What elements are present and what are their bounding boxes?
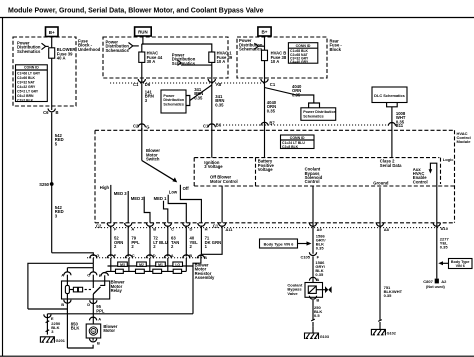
body type vin6 box right [449,259,473,269]
svg-text:C2=66 BLK: C2=66 BLK [17,76,36,80]
svg-text:G: G [146,124,149,129]
svg-text:M: M [92,329,94,333]
valve bowtie [316,289,325,291]
fuse HVAC1 39 [209,52,215,62]
ground G102 [371,329,385,335]
svg-text:A: A [131,227,134,232]
wire fuse38 down [264,61,266,158]
wire switch pin to resistor row x=186.3 [185,226,187,257]
pin H bottom row [198,223,205,226]
connector A8 top [208,79,215,82]
power distribution schematics solid box [161,90,186,113]
coolant bypass valve box [305,283,323,298]
pin B2 [197,255,204,258]
svg-text:C: C [132,253,135,258]
bracket into pds box [309,103,320,108]
svg-text:Distribution: Distribution [163,98,184,102]
svg-text:A: A [61,273,64,278]
module left edge [94,130,96,223]
svg-text:C2=8 BLK: C2=8 BLK [282,145,299,149]
svg-text:C3=32 NAT: C3=32 NAT [17,80,36,84]
wire coolant bypass control [312,186,314,253]
svg-text:C1: C1 [203,124,209,129]
wire fuse44 down [141,62,143,130]
svg-text:C: C [171,227,174,232]
resistor pin C [125,255,132,258]
svg-text:B: B [189,253,192,258]
svg-text:M1: M1 [158,263,163,267]
wire switch pin to resistor row x=128.2 [127,226,129,257]
bracket under dlc [387,103,398,107]
svg-text:0.35: 0.35 [384,293,393,298]
connector B7 [261,122,268,125]
RUN terminal [135,27,152,36]
dotted row resistor assembly [87,257,204,259]
svg-text:Schematics: Schematics [303,114,324,118]
resistor M3 label box [118,262,128,266]
svg-text:B: B [316,298,319,303]
svg-text:Relay: Relay [111,288,123,293]
wire run split [142,36,143,44]
svg-text:30 A: 30 A [147,59,156,64]
relay pin A [64,272,71,275]
wire resistor tap x=110.8 [110,258,112,272]
G pin wire [92,258,94,263]
wire 1008 WHT [391,107,393,158]
svg-text:0.35: 0.35 [215,102,224,107]
relay pin D [90,300,97,303]
DLC schematics box [372,87,407,103]
branch 4040 to power distribution [265,88,314,104]
relay feed A C link [92,263,94,267]
logic notch edge [440,158,442,184]
rail junction horizontal [28,308,68,310]
svg-text:Motor: Motor [103,328,115,333]
svg-text:C2: C2 [133,124,139,129]
module internal edge lower [194,185,454,187]
connector C807 A2 end [435,279,439,284]
svg-text:A10: A10 [441,226,449,231]
svg-text:DLC Schematics: DLC Schematics [374,93,405,98]
relay B wire down [66,299,68,348]
pin A10 [433,223,440,226]
relay suppressor [69,289,73,291]
svg-text:B+: B+ [49,30,55,35]
svg-text:Block: Block [330,47,342,52]
svg-text:D6: D6 [145,82,151,87]
arrow to wire left [442,262,449,264]
svg-text:C105: C105 [300,254,310,259]
resistor element M1 [153,269,162,273]
svg-text:Module Power, Ground, Serial D: Module Power, Ground, Serial Data, Blowe… [8,8,264,15]
wire aux hvac enable [436,186,438,279]
wire switch pin to resistor row x=110.8 [110,226,112,257]
dotted harness line below module [95,227,445,229]
wire B+ to fuse [51,37,53,48]
motor return [67,345,93,348]
E feed diagonal [105,271,107,273]
svg-text:0.35: 0.35 [316,246,325,251]
svg-text:MED 2: MED 2 [131,196,144,201]
svg-text:G102: G102 [387,332,396,336]
pin F bottom row [107,223,114,226]
pin A bottom row [125,223,132,226]
svg-text:A8: A8 [216,82,222,87]
splice S250 [50,182,54,186]
fuse BLOWER 39 [49,48,55,58]
run fuse dashed box [103,37,228,78]
wire fuse39 down [211,62,213,157]
motor pin B [90,339,97,342]
resistor LO label box [173,262,183,266]
svg-text:D: D [87,302,90,307]
arrow to wire [298,243,308,245]
resistor M1 label box [156,262,166,266]
svg-text:Body Type VIN 6: Body Type VIN 6 [264,242,294,246]
ground G103 [305,333,319,339]
svg-text:C1: C1 [133,82,139,87]
svg-text:BLK: BLK [71,326,80,331]
svg-text:A11: A11 [225,227,233,232]
connector C105 F [309,252,316,255]
wire break [312,322,314,326]
svg-text:Ground: Ground [373,181,389,186]
relay switch [92,281,94,288]
svg-text:Switch: Switch [146,157,160,162]
svg-text:10 A: 10 A [271,59,280,64]
connector B11 [388,123,395,126]
svg-text:B11: B11 [396,123,404,128]
relay pin B [64,300,71,303]
low speed rail horizontal [47,313,193,315]
svg-text:D: D [190,227,193,232]
resistor pin A [164,255,171,258]
wire 542 RED upper [51,113,53,253]
svg-text:C5=2 LT GRY: C5=2 LT GRY [17,89,39,93]
bracket to wire [42,43,46,49]
svg-text:LO: LO [175,263,180,267]
wire resistor tap x=149.8 [149,258,151,272]
svg-text:H: H [205,227,208,232]
module right edge [454,130,456,223]
fuse HVAC B 38 [262,50,268,60]
svg-text:A: A [98,316,101,321]
svg-text:A2: A2 [441,279,447,284]
svg-text:C6=2 BRN: C6=2 BRN [17,94,34,98]
frame bottom border [0,355,474,357]
svg-text:B: B [56,110,59,115]
svg-text:D: D [153,253,156,258]
wire switch pin to resistor row x=167.8 [167,226,169,257]
svg-text:0.35: 0.35 [440,244,449,249]
svg-text:B: B [61,302,64,307]
svg-text:Off: Off [183,186,190,191]
svg-text:C7=2 BLK: C7=2 BLK [17,98,34,102]
power distribution schematics solid box right [301,108,336,121]
svg-text:Voltage: Voltage [258,167,273,172]
wire fuse to C6 [51,58,53,110]
wire resistor tap x=167.8 [167,258,169,272]
resistor element LO [173,269,181,273]
CONN ID table 3 [281,135,315,149]
blower motor box [86,324,101,338]
svg-text:Serial Data: Serial Data [380,163,402,168]
wire 250 BLK [312,300,314,320]
svg-text:B: B [97,341,100,346]
svg-text:Power: Power [163,94,175,98]
svg-text:Power Distribution: Power Distribution [303,110,337,114]
svg-text:C2: C2 [96,223,102,228]
connector C6 pin B [48,109,55,112]
svg-text:Module: Module [457,139,472,144]
svg-text:B: B [153,227,156,232]
svg-text:B+: B+ [261,30,267,35]
CONN ID table 2 [288,43,317,64]
rear fuse dashed box [237,37,327,78]
svg-text:G201: G201 [56,339,65,343]
svg-text:CONN ID: CONN ID [290,136,305,140]
ground G201 [40,337,54,343]
pin B bottom row [146,223,153,226]
svg-text:Control: Control [413,179,428,184]
svg-text:Schematics: Schematics [239,47,263,52]
wire 71 dk grn down [200,226,202,255]
pin A8 [376,223,383,226]
relay D to motor [92,299,94,324]
svg-text:C4=32 GRY: C4=32 GRY [17,85,36,89]
resistor box top [108,265,194,267]
break hooks 2250 wire [46,321,50,323]
connector E ground [44,314,51,317]
B+ terminal left [46,27,59,37]
module bottom edge [95,222,455,224]
svg-text:MED 1: MED 1 [154,196,167,201]
pin A9 [309,223,316,226]
svg-text:Valve: Valve [287,291,298,296]
svg-text:M2: M2 [139,263,144,267]
frame left border [2,18,4,357]
svg-text:E: E [99,273,102,278]
connector C1 D6 [138,79,145,82]
svg-text:A8: A8 [384,227,390,232]
svg-text:Motor Control: Motor Control [210,179,238,184]
motor pin A [90,317,97,320]
svg-text:Low: Low [169,190,178,195]
wire to valve [312,256,314,282]
valve pin A [309,277,316,280]
svg-text:0.35: 0.35 [292,92,301,97]
module internal edge upper [194,157,439,159]
svg-text:A9: A9 [317,227,323,232]
svg-text:C: C [87,273,90,278]
wire 71 into resistor rail [200,254,202,261]
wire A11 inside module [221,186,223,223]
connector C1 rear [261,79,268,82]
relay pin E [101,273,108,276]
svg-text:C807: C807 [423,279,433,284]
wire break g102 [379,322,381,327]
svg-text:C1: C1 [213,223,219,228]
svg-text:DK GRN: DK GRN [205,240,222,245]
switch common wire [141,128,143,161]
resistor element M3 [116,269,124,273]
relay coil [66,281,68,285]
svg-text:Logic: Logic [443,157,454,162]
body type vin6 box left [260,239,298,248]
fuse HVAC 44 [139,52,145,62]
svg-text:0.35: 0.35 [267,108,276,113]
wire A11 u-turn [201,226,222,255]
module top edge [95,129,455,131]
svg-text:0.5: 0.5 [314,313,320,318]
wire resistor tap x=186.3 [185,258,187,272]
wire branch left rail [28,263,93,309]
bracket to right fuse wire [178,60,182,65]
svg-text:VIN 6: VIN 6 [456,264,465,268]
svg-text:Assembly: Assembly [195,275,215,280]
pin C bottom row [164,223,171,226]
wire resistor tap x=128.9 [128,258,130,272]
svg-text:CONN ID: CONN ID [24,66,39,70]
wire module ground [379,187,381,320]
connector C2 G [138,124,145,127]
connector C1 B6 [208,124,215,127]
relay link dashes [85,289,87,291]
dotted line above module top right [223,124,388,126]
svg-text:M3: M3 [120,263,125,267]
svg-text:S250: S250 [39,182,49,187]
svg-text:A: A [316,277,319,282]
CONN ID table 1 [16,65,48,102]
resistor pin F [107,255,114,258]
svg-text:40 A: 40 A [57,56,66,61]
svg-text:C6: C6 [43,110,49,115]
sub box right edge [255,158,257,186]
pin A11 [219,223,226,226]
svg-text:G: G [96,253,99,258]
svg-text:B6: B6 [216,122,222,127]
resistor pin B [183,255,190,258]
bracket diag to A8 wire [186,96,190,106]
resistor element M2 [136,269,145,273]
svg-text:0.35: 0.35 [194,95,203,100]
svg-text:CONN ID: CONN ID [296,44,311,48]
svg-text:3 Voltage: 3 Voltage [204,164,223,169]
svg-text:Schematics: Schematics [106,48,130,53]
svg-text:(Not used): (Not used) [426,285,446,289]
pin D bottom row [183,223,190,226]
svg-text:PPL: PPL [96,308,105,313]
svg-text:B: B [204,255,207,260]
logic hook arrow [430,163,436,186]
dotted connector line under fuse blocks [110,82,266,84]
blower motor relay box [62,281,110,299]
svg-text:Schematics: Schematics [163,103,184,107]
frame top line [0,17,474,19]
solenoid symbol [308,286,316,293]
svg-text:C1: C1 [270,82,276,87]
switch blade arrow [142,161,174,181]
svg-text:Control: Control [305,179,320,184]
chain bus [107,270,187,272]
svg-text:High: High [100,185,110,190]
relay pin C [90,272,97,275]
sub box left edge [193,158,195,186]
svg-text:Underhood: Underhood [78,47,101,52]
resistor pin G [90,255,97,258]
svg-text:C4=40 GRY: C4=40 GRY [290,60,309,64]
svg-text:Schematics: Schematics [17,49,41,54]
wire switch pin to resistor row x=150 [149,226,151,257]
resistor pin D [146,255,153,258]
ground branch wire [46,314,48,335]
svg-text:RUN: RUN [138,30,148,35]
svg-text:G103: G103 [320,335,329,339]
wire to resistor feed G [52,253,94,256]
svg-text:C1=66 LT GRY: C1=66 LT GRY [17,71,41,75]
fuse block underhood dashed box [13,37,76,106]
B+ terminal right [258,27,271,36]
svg-text:A: A [171,253,174,258]
resistor M2 label box [137,262,147,266]
valve pin B [309,296,316,299]
svg-text:MED 3: MED 3 [114,191,127,196]
svg-text:10 A: 10 A [217,59,226,64]
